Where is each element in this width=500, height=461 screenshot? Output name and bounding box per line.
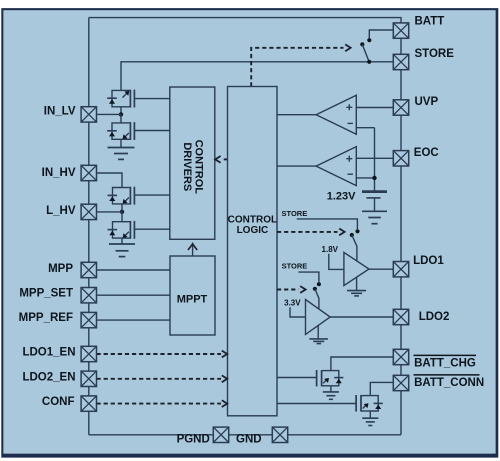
pin LDO2 <box>393 309 408 324</box>
svg-text:LOGIC: LOGIC <box>237 225 269 236</box>
wire dashed STORE control to LDO2 switch <box>277 289 299 291</box>
op-amp A1 LDO1 1.8V <box>344 252 369 285</box>
block MPPT <box>170 256 215 335</box>
svg-text:GND: GND <box>236 434 262 446</box>
wire U2 output to CONTROL LOGIC <box>277 165 316 167</box>
wire U1 minus to reference <box>356 127 374 129</box>
svg-text:1.8V: 1.8V <box>322 245 339 254</box>
svg-text:MPP_SET: MPP_SET <box>19 287 73 299</box>
wire LDO1 switch blade <box>352 235 357 261</box>
wire dashed control of STORE switch <box>251 48 343 87</box>
wire BATT pin to switch contact <box>369 30 393 38</box>
svg-text:MPPT: MPPT <box>177 294 208 306</box>
ground below M2 <box>362 411 378 426</box>
transistor Q1 IN_LV high side <box>107 90 170 115</box>
node reference junction dot <box>372 176 376 180</box>
wire chip outline left rail <box>88 18 90 435</box>
wire UVP pin to U1 plus <box>356 107 393 109</box>
svg-text:1.23V: 1.23V <box>327 191 356 203</box>
wire 3.3V input <box>290 307 306 317</box>
wire junction vertical <box>121 204 123 222</box>
wire reference rail vertical <box>374 128 376 191</box>
svg-text:BATT_CHG: BATT_CHG <box>414 357 476 369</box>
wire 1.8V input <box>329 254 344 270</box>
pin PGND <box>213 427 228 442</box>
svg-text:DRIVERS: DRIVERS <box>181 142 193 191</box>
ground below Q2 <box>108 139 135 159</box>
transistor Q2 IN_LV low side <box>107 114 170 140</box>
pin LDO1_EN <box>81 346 96 361</box>
svg-text:L_HV: L_HV <box>46 205 76 217</box>
node junction IN_LV <box>119 112 123 116</box>
ground below Q4 <box>109 238 135 257</box>
wire STORE stub LDO1 <box>297 219 358 229</box>
pin BATT <box>393 23 408 38</box>
ground below A2 <box>309 326 328 344</box>
svg-text:LDO2_EN: LDO2_EN <box>22 371 75 383</box>
wire IN_HV pin to Q3 <box>97 173 123 188</box>
svg-text:EOC: EOC <box>414 147 439 159</box>
wire A1 output to LDO1 pin <box>369 268 393 270</box>
wire dashed LDO1_EN to CONTROL LOGIC <box>97 353 222 355</box>
pin LDO2_EN <box>81 371 96 386</box>
svg-text:CONF: CONF <box>42 396 75 408</box>
transistor Q4 L_HV low side <box>108 221 170 239</box>
wire STORE rail from PMOS drain to STORE pin <box>121 62 393 90</box>
wire A2 output to LDO2 pin <box>330 316 393 318</box>
wire IN_LV pin to junction <box>97 113 122 115</box>
svg-text:LDO1: LDO1 <box>413 255 444 267</box>
node switch fixed contact dot <box>367 38 371 42</box>
wire chip outline bottom <box>89 434 401 436</box>
block CONTROL LOGIC <box>228 87 278 416</box>
wire chip outline top <box>89 18 401 23</box>
wire MPP pin to MPPT <box>97 269 171 271</box>
pin LDO1 <box>393 262 408 277</box>
svg-text:IN_HV: IN_HV <box>42 167 76 179</box>
svg-text:PGND: PGND <box>177 434 210 446</box>
ground below M1 <box>323 386 339 400</box>
svg-text:LDO2: LDO2 <box>419 311 450 323</box>
wire L_HV pin to junction <box>97 211 123 213</box>
svg-text:BATT_CONN: BATT_CONN <box>414 377 484 389</box>
wire MPP_SET pin to MPPT <box>97 294 171 296</box>
wire switch blade <box>362 44 369 61</box>
svg-text:IN_LV: IN_LV <box>44 106 76 118</box>
node switch pivot dot on STORE rail <box>367 60 371 64</box>
wire U1 output to CONTROL LOGIC <box>277 114 316 116</box>
node switch blade tip dot <box>360 42 364 46</box>
svg-text:BATT: BATT <box>415 16 445 28</box>
pin UVP <box>393 100 408 115</box>
svg-text:MPP: MPP <box>48 263 73 275</box>
wire dashed LDO2_EN to CONTROL LOGIC <box>97 378 222 380</box>
svg-text:3.3V: 3.3V <box>284 299 301 308</box>
svg-text:STORE: STORE <box>282 262 308 271</box>
pin STORE <box>393 54 408 69</box>
comparator U2 EOC <box>316 147 356 186</box>
pin MPP_SET <box>81 288 96 303</box>
svg-text:STORE: STORE <box>415 48 455 60</box>
node LDO1 switch contact dot <box>355 229 359 233</box>
pin CONF <box>81 396 96 411</box>
pin MPP <box>81 262 96 277</box>
ground below A1 <box>347 277 366 296</box>
wire MPP_REF pin to MPPT <box>97 319 171 321</box>
pin GND <box>272 427 287 442</box>
wire EOC pin to U2 plus <box>356 157 393 159</box>
svg-text:MPP_REF: MPP_REF <box>19 312 73 324</box>
pin EOC <box>393 151 408 166</box>
svg-text:STORE: STORE <box>282 209 308 218</box>
pin L_HV <box>81 204 96 219</box>
battery reference 1.23V <box>362 192 387 224</box>
wire LDO2 switch blade <box>315 289 319 309</box>
pin BATT_CONN <box>393 375 408 390</box>
comparator U1 UVP <box>316 95 356 134</box>
wire arrow MPPT to CONTROL DRIVERS <box>192 243 194 257</box>
pin IN_HV <box>81 165 96 180</box>
wire U2 minus to reference <box>356 177 374 179</box>
node LDO1 switch blade tip dot <box>350 233 354 237</box>
transistor Q3 IN_HV high side <box>108 187 170 205</box>
svg-text:CONTROL: CONTROL <box>192 140 204 195</box>
svg-text:UVP: UVP <box>415 96 439 108</box>
transistor M1 BATT_CHG <box>277 370 343 386</box>
wire BATT_CHG pin to M1 drain <box>331 357 393 371</box>
wire dashed arrow CONTROL LOGIC to CONTROL DRIVERS <box>222 158 228 160</box>
wire chip outline right rail <box>400 23 402 435</box>
pin IN_LV <box>81 107 96 122</box>
wire dashed STORE control to LDO1 switch <box>277 231 338 233</box>
node LDO2 switch blade tip dot <box>313 287 317 291</box>
svg-text:LDO1_EN: LDO1_EN <box>22 347 75 359</box>
wire STORE stub LDO2 <box>298 272 319 282</box>
node junction L_HV <box>120 210 124 214</box>
pin BATT_CHG <box>393 349 408 364</box>
op-amp A2 LDO2 3.3V <box>306 300 331 335</box>
pin MPP_REF <box>81 312 96 327</box>
wire dashed CONF to CONTROL LOGIC <box>97 403 222 405</box>
block CONTROL DRIVERS <box>170 87 215 239</box>
node LDO2 switch contact dot <box>317 282 321 286</box>
wire BATT_CONN pin to M2 drain <box>370 382 393 395</box>
transistor M2 BATT_CONN <box>277 395 383 412</box>
